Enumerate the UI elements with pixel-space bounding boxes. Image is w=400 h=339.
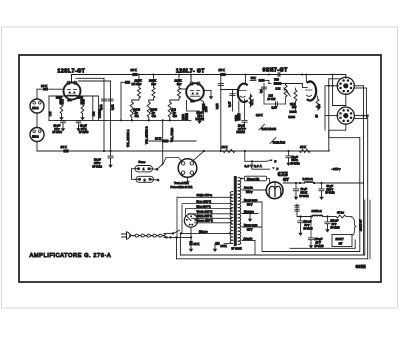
svg-text:350 v: 350 v: [94, 161, 101, 165]
svg-text:470: 470: [317, 104, 321, 109]
wire V1 plate a: [76, 77, 104, 79]
svg-text:Nero 220 V.: Nero 220 V.: [197, 200, 212, 204]
svg-text:GHE: GHE: [356, 264, 366, 269]
svg-text:25 K: 25 K: [131, 68, 137, 72]
transformer core: [234, 176, 237, 246]
wire mains drop b: [179, 233, 181, 255]
wire left vertical 3: [332, 75, 334, 106]
svg-text:Nº 3918: Nº 3918: [315, 244, 325, 248]
capacitor 0.15: [264, 103, 286, 105]
svg-text:2 500 Ω: 2 500 Ω: [312, 209, 323, 213]
wire V3 top: [245, 75, 247, 85]
switch fono input 1: [135, 166, 153, 172]
svg-text:Bianco: Bianco: [199, 229, 208, 233]
svg-text:2 100 Ω: 2 100 Ω: [303, 177, 314, 181]
svg-text:52 V: 52 V: [247, 227, 253, 231]
connector MIC 2: [30, 128, 44, 142]
wire into 750: [268, 80, 270, 83]
svg-text:2200: 2200: [56, 96, 62, 100]
potentiometer 0,5 M AP 431: [132, 98, 139, 100]
resistor 25K mic2 line: [63, 149, 68, 152]
wire 6X5 cathode out: [283, 182, 304, 184]
selector voltage: [184, 214, 197, 227]
svg-text:15 K: 15 K: [300, 145, 306, 149]
svg-text:300 v: 300 v: [246, 190, 253, 194]
border frame: [19, 55, 381, 282]
svg-text:TONI BASSI: TONI BASSI: [261, 127, 276, 131]
wire fono ovals left: [132, 169, 140, 180]
svg-text:3,3 K: 3,3 K: [256, 113, 263, 117]
wire rail 1: [290, 240, 355, 248]
capacitor 32uF 350V N3912: [321, 183, 323, 188]
svg-text:¼w: ¼w: [177, 82, 181, 86]
resistor 25K mixer: [149, 140, 196, 142]
resistor 1M V1: [48, 96, 50, 120]
ground 300K: [214, 244, 216, 249]
capacitor 0.1: [263, 84, 265, 96]
wire HV arancio: [242, 189, 267, 191]
svg-text:Nº1263: Nº1263: [237, 130, 246, 134]
wire tap Nero: [182, 203, 231, 205]
wire rosso nero 2: [242, 226, 262, 228]
resistor 2200 V3 cathode: [238, 102, 240, 114]
svg-text:12SL7: 12SL7: [336, 237, 345, 241]
wire socket1 top: [342, 75, 346, 79]
wire V1 network top: [49, 95, 99, 97]
resistor 1M V1b: [92, 96, 94, 120]
wire B+ top bus: [72, 74, 342, 76]
svg-text:Nº 3902: Nº 3902: [300, 194, 310, 198]
resistor 1M half-w: [98, 96, 100, 120]
svg-text:MIC 1: MIC 1: [32, 107, 39, 110]
svg-text:433: 433: [173, 115, 178, 118]
svg-text:Nº 3902: Nº 3902: [93, 165, 103, 169]
wire twisted cord: [130, 234, 165, 237]
ground 15K: [190, 246, 192, 249]
resistor 15K top: [220, 73, 225, 76]
svg-text:2 M: 2 M: [276, 87, 281, 91]
wire socket1 upper left: [329, 78, 340, 80]
connector MIC 1: [30, 99, 44, 113]
svg-text:15 K: 15 K: [194, 242, 200, 246]
wire socket1 bottom: [333, 93, 346, 105]
heater arrow F1: [267, 160, 272, 161]
label TONI ALTI: [270, 138, 276, 144]
resistor 220K quarter-w #3: [178, 75, 180, 88]
wire right vertical pair a: [363, 86, 365, 255]
svg-text:0,22: 0,22: [215, 103, 219, 109]
svg-text:Nº 1063: Nº 1063: [79, 130, 89, 134]
wire left vertical 1: [324, 86, 326, 130]
svg-text:Arancio: Arancio: [244, 185, 253, 189]
wire tap Verde: [189, 213, 232, 215]
node dots top bus: [138, 74, 140, 76]
svg-text:0,47: 0,47: [227, 101, 231, 107]
svg-text:Bianco blu: Bianco blu: [247, 177, 260, 181]
wire tap Bleu: [186, 208, 232, 210]
transformer primary winding: [230, 192, 232, 195]
svg-text:220 K: 220 K: [149, 79, 156, 83]
svg-text:Nº 3915: Nº 3915: [331, 226, 341, 230]
capacitor 0.47: [232, 90, 234, 112]
svg-text:Verde 140 V.: Verde 140 V.: [197, 210, 213, 214]
resistor 22K quarter: [295, 88, 297, 90]
svg-text:300K: 300K: [221, 244, 227, 248]
svg-text:25 K: 25 K: [155, 137, 161, 141]
svg-text:432: 432: [152, 115, 157, 118]
tube V1 12SL7-GT: [64, 83, 81, 100]
svg-text:15 K: 15 K: [219, 68, 225, 72]
wire heater feed 2: [251, 161, 253, 169]
tube V3 6SN7 half A: [238, 84, 247, 102]
resistor 2200 V1b: [82, 96, 84, 99]
capacitor 16uF 350v N3902 left: [110, 151, 112, 156]
wire left vertical 2: [328, 79, 330, 151]
svg-text:47 K: 47 K: [250, 99, 254, 105]
svg-text:5000: 5000: [289, 115, 296, 119]
capacitor 100uF 50V N3909: [300, 217, 302, 221]
brace speaker group: [352, 218, 357, 236]
wire B+ to rail: [340, 182, 364, 184]
label Bianco blu: [245, 176, 267, 181]
svg-text:F: F: [277, 167, 279, 171]
socket output 1: [337, 77, 354, 94]
resistor 25K grid V1: [37, 88, 63, 90]
svg-text:Rosso 110 V.: Rosso 110 V.: [197, 219, 214, 223]
svg-text:25 K: 25 K: [61, 145, 67, 149]
wire rosso nero 2 drop: [261, 202, 263, 252]
svg-text:1 M: 1 M: [92, 112, 96, 116]
resistor 750: [269, 83, 271, 85]
capacitor 0.22 a: [103, 78, 105, 151]
tube V5 6X5 rectifier: [266, 182, 283, 199]
svg-text:Arancio: Arancio: [244, 236, 253, 240]
resistor 47K: [250, 94, 252, 107]
resistor 15K bottom bus: [300, 149, 311, 152]
svg-text:Rosso nero: Rosso nero: [244, 198, 258, 202]
resistor 2200 V1a: [61, 96, 63, 99]
capacitor 10uF 50V N1063 b: [82, 114, 84, 118]
svg-text:22 K: 22 K: [290, 102, 296, 106]
wire tap Grigio: [177, 196, 231, 198]
svg-text:12SL7-GT: 12SL7-GT: [58, 68, 86, 74]
potentiometer 0,5 M AP 432: [149, 98, 154, 100]
svg-text:¼w: ¼w: [137, 82, 141, 86]
socket output 2: [337, 107, 354, 124]
wire mic2 to bottom bus: [36, 142, 38, 152]
resistor 47 ohm 1w: [336, 215, 346, 218]
capacitor 16uF 350v N3902 psu: [295, 183, 297, 188]
wire phono to bus: [194, 151, 205, 160]
label 12SL7 GT boxed: [332, 235, 352, 247]
svg-text:GT: GT: [339, 242, 343, 246]
capacitor 10uF V2: [187, 110, 200, 112]
svg-text:F: F: [275, 159, 277, 163]
svg-text:50 v: 50 v: [55, 127, 61, 131]
wire bianco line: [164, 232, 173, 234]
resistor 5000: [289, 110, 297, 113]
svg-text:0,22: 0,22: [111, 104, 115, 110]
svg-text:Nº1263: Nº1263: [196, 117, 205, 121]
wire V3 grid in: [221, 89, 239, 91]
wire 47ohm to brace: [346, 216, 352, 218]
switch fono input 2: [136, 176, 154, 182]
svg-text:2 M: 2 M: [269, 94, 273, 98]
wire right vertical pair d: [369, 200, 371, 259]
svg-text:47 1w: 47 1w: [337, 211, 344, 215]
wire arancio bottom: [242, 240, 255, 242]
wire socket2 right: [354, 115, 368, 117]
resistor 22K bottom bus: [223, 149, 235, 152]
capacitor on bus: [277, 72, 279, 76]
wire socket1 right: [354, 85, 364, 87]
capacitor 16uF 350v N3902 mid: [288, 151, 290, 155]
resistor 470: [317, 96, 319, 99]
plug mains: [122, 233, 127, 235]
connector phono head Testa Adatt: [178, 159, 197, 178]
wire right vertical pair c: [364, 200, 366, 255]
wire socket2 bottom: [329, 124, 346, 138]
wire socket2 lower h: [329, 137, 360, 139]
svg-text:VOL. MICRO 2: VOL. MICRO 2: [145, 126, 149, 144]
wire rosso nero 1: [242, 201, 262, 203]
tube V4 6SN7 half B: [308, 82, 317, 101]
svg-text:220 K: 220 K: [135, 79, 142, 83]
tube V2 12SL7-GT: [186, 83, 204, 101]
svg-text:22 K: 22 K: [222, 145, 228, 149]
capacitor 0.22 c: [220, 75, 222, 152]
wire socket1 left: [325, 85, 338, 87]
svg-text:4FB: 4FB: [68, 100, 73, 102]
potentiometer 1 M AP 433: [170, 98, 179, 100]
resistor 220K quarter-w #2: [153, 75, 155, 88]
svg-text:1 M: 1 M: [48, 112, 52, 116]
svg-text:2200: 2200: [77, 96, 83, 100]
svg-text:Nº 3905: Nº 3905: [232, 247, 242, 251]
wire V4 grid in: [302, 84, 307, 88]
svg-text:1ZB: 1ZB: [191, 101, 196, 103]
wire mid bus: [49, 119, 191, 121]
capacitor 10uF N1263 V3: [244, 99, 246, 120]
wire V1 plate b: [79, 80, 111, 82]
svg-text:0,22: 0,22: [99, 104, 103, 110]
svg-text:2200: 2200: [181, 114, 185, 120]
wire tone bottom: [295, 101, 297, 110]
svg-text:Bleu 160 V.: Bleu 160 V.: [197, 205, 211, 209]
svg-text:220 K: 220 K: [175, 79, 182, 83]
capacitor 10uF 50v N1063 a: [61, 114, 63, 118]
wire 25K second drop: [120, 82, 122, 120]
choke field coil 2500: [297, 216, 312, 218]
svg-text:Rosso nero: Rosso nero: [244, 223, 258, 227]
svg-text:AMPLIFICATORE G. 276·A: AMPLIFICATORE G. 276·A: [30, 253, 112, 259]
svg-text:6,3 V 0,6 A: 6,3 V 0,6 A: [245, 164, 262, 168]
wire mains drop a: [176, 237, 178, 258]
wire feed to field coil 2: [296, 204, 298, 217]
wire rail 3: [180, 254, 364, 256]
wire socket2 left: [325, 115, 338, 117]
capacitor 0.22 b: [110, 81, 112, 151]
svg-text:GT: GT: [283, 177, 289, 182]
svg-text:0,1: 0,1: [259, 89, 263, 93]
svg-text:12SL7- GT: 12SL7- GT: [176, 69, 205, 75]
wire 6X5 plate: [266, 189, 268, 191]
svg-text:Fono: Fono: [139, 160, 146, 164]
svg-text:2200: 2200: [234, 115, 238, 121]
svg-text:Nº 1063: Nº 1063: [53, 130, 63, 134]
svg-text:Nº 3909: Nº 3909: [304, 227, 314, 231]
wire V2 plate to bus: [190, 75, 192, 82]
wire rail 2: [262, 138, 360, 252]
svg-text:50 V.: 50 V.: [81, 127, 87, 131]
svg-text:Nº 735: Nº 735: [268, 97, 276, 101]
svg-text:Grigio 280 v.: Grigio 280 v.: [197, 193, 213, 197]
wire mic1 to mic2: [36, 113, 38, 128]
wire filament 6X5: [267, 179, 270, 184]
label TONI BASSI: [259, 124, 265, 130]
wire heater feed 1: [245, 151, 267, 161]
svg-text:Giallo 125 V.: Giallo 125 V.: [197, 214, 213, 218]
svg-text:TONI ALTI: TONI ALTI: [273, 140, 286, 144]
wire marrone center tap: [242, 213, 258, 215]
wire mains pair: [163, 233, 165, 235]
wire tap Rosso: [195, 222, 232, 224]
resistor 2200 V2 cathode: [186, 101, 188, 111]
wire phono left: [164, 158, 182, 164]
wire V2 plate out: [204, 89, 211, 91]
wire right vertical pair b: [365, 88, 367, 119]
svg-text:52 V: 52 V: [247, 202, 253, 206]
svg-text:Marrone: Marrone: [244, 209, 254, 213]
wire selector nest: [176, 197, 178, 236]
svg-text:Fotocellula G 291: Fotocellula G 291: [171, 185, 193, 189]
wire V4 top: [305, 75, 307, 82]
wire grid V2: [179, 88, 186, 90]
svg-text:Nº 3902: Nº 3902: [291, 162, 301, 166]
resistor 300K: [215, 242, 220, 245]
svg-text:6SN7-GT: 6SN7-GT: [263, 68, 288, 74]
wire tap Giallo: [192, 217, 232, 219]
svg-text:Nº 3912: Nº 3912: [326, 191, 336, 195]
resistor 15K fuse: [189, 241, 193, 246]
resistor 2200 V2b: [200, 100, 204, 104]
ground phono: [187, 177, 189, 181]
svg-text:- 315 v: - 315 v: [332, 167, 341, 171]
svg-text:VOL. FONO: VOL. FONO: [170, 128, 174, 142]
svg-text:0,15: 0,15: [272, 105, 278, 109]
wire selector bottom: [190, 227, 192, 241]
switch lever fono: [156, 168, 159, 171]
wire fono feed: [162, 120, 164, 165]
svg-text:75K: 75K: [251, 76, 256, 80]
transformer secondary winding: [238, 177, 241, 180]
capacitor 250uF 25v N3915: [327, 217, 329, 222]
svg-text:2200: 2200: [205, 106, 208, 112]
svg-text:MIC 2: MIC 2: [32, 136, 39, 139]
resistor 25K plate on bus: [132, 73, 137, 76]
ground V2: [210, 90, 212, 96]
resistor 75K: [250, 79, 256, 81]
wire bottom bus: [37, 150, 330, 152]
wire transformer bottom tap: [224, 243, 231, 245]
resistor 25K second: [121, 81, 125, 83]
capacitor 250uF 25V N3918: [310, 217, 312, 238]
resistor 220K quarter-w #1: [138, 75, 140, 88]
svg-text:25 K: 25 K: [41, 84, 47, 88]
svg-text:750: 750: [274, 78, 279, 82]
wire rail 4: [177, 258, 368, 260]
svg-text:16 µF: 16 µF: [94, 158, 101, 162]
svg-text:431: 431: [135, 115, 140, 118]
wire right vertical long: [367, 116, 369, 259]
heater arrow F2: [272, 167, 275, 169]
svg-text:VOL. MICRO 1: VOL. MICRO 1: [126, 129, 130, 147]
wire V1 plate to bus: [71, 75, 73, 83]
wire mic1 to grid: [36, 89, 38, 99]
svg-text:¼w: ¼w: [152, 82, 156, 86]
